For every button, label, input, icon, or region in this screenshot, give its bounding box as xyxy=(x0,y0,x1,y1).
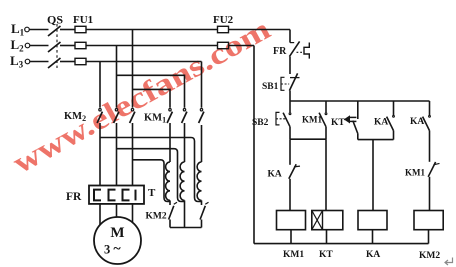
contactor KM1 main pole 2 xyxy=(182,109,187,163)
svg-text:KT: KT xyxy=(331,118,345,128)
control rail corner xyxy=(289,30,291,43)
return arrow mark xyxy=(445,258,453,266)
relay FR heater box xyxy=(89,186,144,204)
node L2 xyxy=(25,43,30,48)
button SB2 NO xyxy=(276,101,291,139)
svg-text:KA: KA xyxy=(410,117,424,127)
wire coil KM1 bottom lead xyxy=(290,230,292,244)
wire coil KT bottom lead xyxy=(326,230,328,244)
wire KT-KA join xyxy=(358,139,394,141)
wire to KA coil xyxy=(372,140,374,211)
coil KT with timer box xyxy=(312,211,343,230)
contact KM1 NC lower xyxy=(428,162,439,211)
svg-text:KA: KA xyxy=(366,250,380,260)
transformer T winding 1 xyxy=(166,162,170,200)
svg-text:FR: FR xyxy=(273,46,287,57)
wire xyxy=(30,45,49,47)
wire coil KM2 bottom lead xyxy=(428,230,430,244)
wire FU2 to left control rail xyxy=(229,45,255,47)
fuse FU2 phase 2 xyxy=(218,42,229,48)
coil KA xyxy=(358,211,387,230)
fuse FU1 phase 1 xyxy=(75,26,86,32)
wire star middle xyxy=(184,200,186,227)
svg-text:FR: FR xyxy=(66,191,82,203)
svg-text:FU2: FU2 xyxy=(213,14,234,26)
svg-text:QS: QS xyxy=(47,13,63,27)
svg-text:KM1: KM1 xyxy=(283,250,304,260)
svg-text:KA: KA xyxy=(374,118,388,128)
contactor KM2 main pole 1 xyxy=(97,109,102,186)
switch QS pole 3 xyxy=(48,58,61,68)
wire motor lead 3 xyxy=(132,204,134,226)
button SB1 NC xyxy=(281,73,300,101)
svg-text:KM1: KM1 xyxy=(405,168,425,178)
wire L2 to FU2 xyxy=(86,45,218,47)
contactor KM2 main pole 3 xyxy=(130,109,135,186)
wire branch L2 to KM1 pole 2 xyxy=(117,75,185,107)
wire L3 run xyxy=(86,61,202,63)
transformer T winding 3 xyxy=(197,162,201,200)
svg-text:SB1: SB1 xyxy=(262,82,279,92)
svg-text:KA: KA xyxy=(268,170,282,180)
switch QS linkage dashed xyxy=(56,24,58,68)
svg-text:KM2: KM2 xyxy=(146,212,167,222)
svg-text:SB2: SB2 xyxy=(252,118,269,128)
wire control top bus xyxy=(290,100,430,102)
wire to KA NC xyxy=(289,139,291,165)
wire xyxy=(60,61,75,63)
fuse FU2 phase 1 xyxy=(218,26,229,32)
wire xyxy=(30,61,49,63)
wire H2 motor line 2 tap xyxy=(117,149,185,202)
svg-text:FU1: FU1 xyxy=(73,14,93,26)
contactor KM2 star pole 1 xyxy=(169,200,177,227)
contact KM1 aux NO xyxy=(319,101,327,139)
wire L2 drop xyxy=(116,46,118,108)
wire FU2 to control rail xyxy=(229,29,291,31)
wire to KT coil xyxy=(325,139,327,210)
coil KM2 xyxy=(414,211,443,230)
relay contact FR NC xyxy=(289,41,309,74)
wire branch L1 to KM1 pole 1 xyxy=(133,89,171,107)
wire motor lead 1 xyxy=(99,204,101,228)
wire xyxy=(30,29,49,31)
motor M circle xyxy=(94,217,141,264)
wire L1 to FU2 xyxy=(86,29,218,31)
contact KA NO 2 xyxy=(423,101,431,162)
wire motor lead 2 xyxy=(116,204,118,220)
wire L3 drop xyxy=(99,62,101,108)
wire coil KA bottom lead xyxy=(372,230,374,244)
wire bottom bus xyxy=(254,243,429,245)
fuse FU1 phase 2 xyxy=(75,42,86,48)
wire left control rail xyxy=(253,46,255,244)
node L3 xyxy=(25,59,30,64)
wire SB2-KM1 join xyxy=(290,138,326,140)
node L1 xyxy=(25,27,30,32)
svg-text:T: T xyxy=(148,187,156,199)
coil KM1 xyxy=(277,211,306,230)
switch QS pole 1 xyxy=(48,26,61,36)
wire H3 motor line 3 tap xyxy=(133,160,171,202)
svg-text:KM2: KM2 xyxy=(419,251,440,261)
wire L3 corner to KM1 pole 3 xyxy=(201,62,203,108)
wire L1 drop xyxy=(132,30,134,108)
wire xyxy=(60,29,75,31)
contactor KM1 main pole 3 xyxy=(199,109,204,163)
fuse FU1 phase 3 xyxy=(75,58,86,64)
svg-text:KM1: KM1 xyxy=(302,115,322,125)
svg-text:KT: KT xyxy=(319,250,333,260)
wire star bus xyxy=(170,227,202,229)
svg-text:M: M xyxy=(110,225,124,241)
switch QS pole 2 xyxy=(48,42,61,52)
contactor KM2 main pole 2 xyxy=(114,109,119,186)
transformer T winding 2 xyxy=(180,162,184,200)
contact KA NO 1 xyxy=(387,101,395,140)
contactor KM2 star pole 2 xyxy=(200,200,208,227)
contactor KM1 main pole 1 xyxy=(167,109,172,163)
wire xyxy=(60,45,75,47)
wire H1 motor line 1 tap xyxy=(100,138,202,202)
contact KT delayed xyxy=(344,101,358,140)
svg-text:3 ~: 3 ~ xyxy=(104,242,121,257)
contact KA NC lower xyxy=(289,164,300,210)
